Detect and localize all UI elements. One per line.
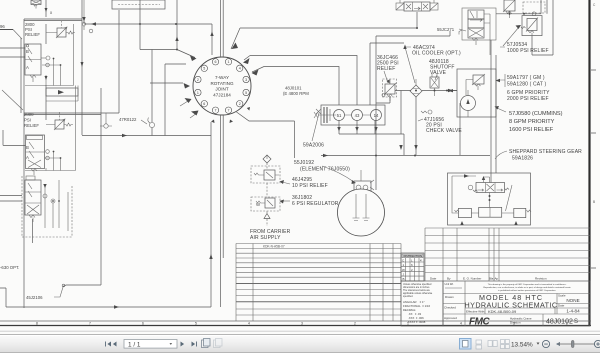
wire x415 x460 drops [416,97,460,155]
svg-text:5: 5 [195,322,197,326]
valve block V11 with B A ports [25,44,50,82]
wire y90.5 cooler row [395,90,457,92]
joint radial arrows [184,43,259,116]
wire y64 stub [165,63,186,65]
svg-text:48J0101: 48J0101 [285,86,302,91]
svg-text:S: S [574,319,578,325]
wire diagonal to port 5 [177,50,195,58]
label 46J4295 10 PSI RELIEF [280,177,328,189]
svg-text:2: 2 [197,78,199,82]
bus x376 vertical [375,36,377,190]
svg-text:1 / 1: 1 / 1 [128,341,141,348]
svg-text:59A2006: 59A2006 [303,143,324,149]
arrow into priority [449,89,454,92]
svg-text:51: 51 [337,113,342,118]
wire x165 drop [164,64,166,136]
svg-text:13.54%: 13.54% [511,342,533,349]
wire x140 elbow [140,0,177,50]
svg-text:4: 4 [239,67,241,71]
label 6 GPM PRIORITY [507,90,550,102]
svg-text:RELIEF: RELIEF [24,123,39,128]
svg-text:W: W [402,268,405,272]
box around mid cluster [25,86,76,171]
svg-text:7: 7 [215,109,217,113]
nav first-page button [105,342,116,347]
label 55JC271 [437,27,466,32]
svg-text:6: 6 [142,322,144,326]
arrow on y155.5 [323,154,328,157]
reservoir circle [338,189,385,236]
label 48J0101 engine [283,86,309,97]
svg-text:7: 7 [228,109,230,113]
svg-text:2800: 2800 [24,112,34,117]
svg-text:47R0122: 47R0122 [119,117,137,122]
arrows into joint below [211,120,233,124]
svg-text:Approved: Approved [444,316,457,320]
joint port circles [195,59,250,114]
label 36J1802 6 PSI REGULATOR [280,195,339,207]
pump outlet arrows [337,127,377,132]
wire y24 horizontal [84,23,212,25]
steering gear box [448,173,532,225]
wire y13.8 top right [496,0,553,55]
wire x101 vertical [100,88,102,285]
svg-text:specified.: specified. [403,295,413,298]
svg-text:SHEPPARD STEERING GEAR: SHEPPARD STEERING GEAR [509,149,582,155]
sheet right border [588,0,590,326]
air valve R3 dashed box [251,197,280,211]
wire pair y19.5 [24,19,82,21]
svg-text:E. O. Number: E. O. Number [463,277,481,281]
arrow on x176 [175,37,178,42]
valve 55JC271 stack [459,8,496,55]
relief valve mid-left [46,112,73,130]
box around lower cluster [22,176,72,237]
label 57J0534 1000 PSI RELIEF [500,25,549,54]
svg-text:3: 3 [301,322,303,326]
prev-view icon [202,339,211,348]
svg-text:B: B [403,277,405,281]
label 55J0192 ELEMENT [294,160,356,184]
wire x211 riser [210,122,212,307]
svg-text:RELIEF: RELIEF [25,32,40,37]
svg-text:5: 5 [245,91,247,95]
relief valve 57J0534a [503,0,516,18]
svg-text:OIL COOLER (OPT.): OIL COOLER (OPT.) [412,51,461,57]
layout icon continuous-facing [501,340,510,349]
svg-text:CHECK VALVE: CHECK VALVE [426,128,462,134]
svg-text:KDK-48-B00-09: KDK-48-B00-09 [488,309,517,314]
svg-text:ROTATING: ROTATING [210,81,233,86]
wire y135.5 to joint [82,135,211,137]
svg-text:59A1280 ( CAT ): 59A1280 ( CAT ) [507,82,546,88]
node symbol x84 [82,0,86,30]
page bottom edge [0,330,600,332]
svg-text:.XXXX ± .0008: .XXXX ± .0008 [407,320,426,324]
svg-text:Revision: Revision [535,277,547,281]
svg-text:55J0192: 55J0192 [294,160,314,166]
arrows down x401 x415 [399,145,417,150]
svg-text:Bla: Bla [489,277,494,281]
arrow left on y24 [91,22,96,25]
revision table [425,228,590,281]
wire x401 [400,91,402,135]
layout icon single (selected) [460,339,472,350]
valve block V12 [26,135,50,175]
svg-text:Unit Wt.: Unit Wt. [445,282,455,286]
svg-text:96: 96 [0,24,5,29]
relief valve 36JC466 symbol [382,79,397,101]
zoom in button [594,340,600,347]
arrow on y307 [114,305,119,308]
svg-text:2000 PSI RELIEF: 2000 PSI RELIEF [507,96,549,102]
tolerance note block [401,281,443,326]
label 48J0118 SHUTOFF VALVE [429,59,455,80]
svg-text:14: 14 [374,113,379,118]
svg-text:6: 6 [203,102,205,106]
wire from joint to right y121 [237,112,295,158]
svg-text:Checked: Checked [444,306,456,310]
label FROM CARRIER AIR SUPPLY [250,219,291,241]
zoom out button [542,340,549,347]
return line y155.5 [321,155,490,157]
label 47R0122 [100,117,147,128]
svg-text:Date: Date [558,304,565,308]
zoom slider [556,342,560,346]
arrow on x84 [82,17,85,22]
junction x177 [176,49,178,51]
steering bus double [491,40,496,183]
air supply triangle [264,214,270,219]
label 2800 PSI RELIEF (upper) [25,22,40,37]
svg-text:B: B [26,145,29,150]
arrow on x212 [210,32,213,37]
wire x82 [81,0,83,135]
top middle box [112,0,165,9]
valve block V13 lower-left [25,176,55,222]
pump outlet wires [339,121,404,156]
svg-text:6 PSI REGULATOR: 6 PSI REGULATOR [292,201,339,207]
label 36JC466 2500 PSI RELIEF [377,55,399,84]
effectivity table [236,244,401,322]
oil cooler diamond [410,79,422,97]
label SHEPPARD STEERING GEAR [495,149,582,162]
svg-text:8 GPM PRIORITY: 8 GPM PRIORITY [509,119,555,125]
svg-text:Division: Division [510,321,521,325]
dashed opt box top right [523,2,545,13]
svg-text:7: 7 [89,322,91,326]
svg-text:5: 5 [203,67,205,71]
zone ticks right [591,70,596,268]
svg-text:45J2106: 45J2106 [26,295,43,300]
arrow on y135.5 [122,134,127,137]
air regulator R2 dashed box [251,155,280,183]
svg-text:A: A [26,155,29,160]
title block [443,281,590,328]
nav next buttons [181,342,197,347]
wire y28 top long [231,12,417,49]
arrow up on x211 [209,254,212,259]
priority valve box [457,69,496,117]
diagonal stubs into left ports [180,101,197,118]
svg-text:1000 PSI RELIEF: 1000 PSI RELIEF [507,48,549,54]
next-view icon (disabled) [214,339,223,348]
svg-text:2: 2 [354,322,356,326]
svg-text:VALVE: VALVE [430,70,447,76]
sheet bottom border [0,320,591,322]
label 45J2106 [26,287,63,300]
svg-text:is prohibited without written: is prohibited without written permission… [498,289,556,292]
svg-text:Scale: Scale [558,294,566,298]
layout icon facing [488,341,497,347]
svg-text:57J0580 (CUMMINS): 57J0580 (CUMMINS) [509,111,563,117]
svg-text:B: B [593,200,595,204]
svg-text:JOINT: JOINT [215,87,228,92]
arrow on x82 [81,62,84,67]
svg-text:RELIEF: RELIEF [377,66,395,72]
svg-text:55JC271: 55JC271 [437,27,455,32]
svg-text:4: 4 [248,322,250,326]
relief valve 57J0534b [521,16,542,36]
wire jog to 45J2106 [63,285,101,287]
valve V10 top-left [31,0,53,15]
svg-text:DISTRIBUTION: DISTRIBUTION [404,254,423,258]
svg-text:43: 43 [355,113,360,118]
svg-text:2: 2 [239,102,241,106]
svg-text:Ap: Ap [495,277,499,281]
svg-text:Date: Date [430,277,437,281]
svg-text:(E 4800 RPM: (E 4800 RPM [283,91,309,96]
wire x46 mid [45,85,47,120]
svg-text:This drawing is the property o: This drawing is the property of FMC Corp… [488,283,567,286]
joint double drop line [221,0,224,57]
wire pair y113 [24,113,119,114]
svg-text:Reproduction, use or disclosur: Reproduction, use or disclosure, in whol… [483,286,571,289]
wire x176 vertical [176,0,178,50]
svg-text:1: 1 [197,91,199,95]
relief valve upper-left [46,21,75,39]
page number box [124,340,177,349]
svg-text:48J0102: 48J0102 [546,319,573,326]
label 57J0580 CUMMINS [495,106,563,133]
svg-text:8: 8 [36,322,38,326]
wire x119 vertical [118,10,120,113]
wire joint to pump box lower [252,67,339,106]
node leader -96 [0,24,22,39]
wire x212 down to joint [211,24,213,55]
wire feeds from left edge [0,38,33,243]
left stub box [0,288,6,307]
svg-text:7-WAY: 7-WAY [215,75,229,80]
svg-text:47J2184: 47J2184 [213,92,231,97]
svg-text:Drawn: Drawn [445,295,454,299]
gauge circle 47R0122 tap [149,122,154,127]
check valve 47J1656 [418,110,462,134]
svg-text:6: 6 [215,60,217,64]
svg-text:Effective With:: Effective With: [466,310,485,314]
svg-text:4: 4 [460,322,462,326]
svg-text:By: By [447,277,451,281]
svg-text:FMC: FMC [469,317,490,328]
wire y36 [376,31,450,36]
wire y83 stub to port 1 [150,82,183,84]
layout icon continuous [476,340,482,349]
bottom return wire y307 [6,306,211,308]
svg-text:PSI: PSI [24,118,31,123]
wire joint to pump box upper [244,56,357,106]
wire x152 drop to gauge [151,50,153,136]
wires into V13 from left edge [0,196,22,202]
label 59A2006 [303,109,324,149]
box around upper cluster [25,24,74,86]
dashed air line [266,163,268,213]
svg-text:AIR SUPPLY: AIR SUPPLY [250,235,281,241]
arrow on joint right wire [247,107,250,111]
check valve mid-left [46,86,78,102]
arrow on x46 [45,8,48,12]
shutoff valve symbol [430,73,439,96]
svg-text:3: 3 [245,78,247,82]
svg-text:B: B [26,49,29,54]
solenoid valve 55JC400 top center [396,0,438,11]
svg-text:1600 PSI RELIEF: 1600 PSI RELIEF [509,127,554,133]
wire x46 top [45,0,47,44]
svg-text:10 PSI RELIEF: 10 PSI RELIEF [292,183,328,189]
label 2800 PSI RELIEF (lower) [2,90,39,128]
pump group P1 P2 P3 [314,105,385,125]
7-way rotating joint [193,57,251,115]
label 59A1797 GM CAT [496,74,547,88]
wire y103 [376,96,390,103]
svg-text:NONE: NONE [566,298,579,303]
zone ticks bottom [36,322,568,326]
wire left bus x24 [23,19,25,308]
svg-text:A: A [26,65,29,70]
arrow on y90.5 [448,89,453,92]
junction dots y24 [139,23,141,25]
svg-text:-630 OPT.: -630 OPT. [0,265,19,270]
svg-text:1: 1 [228,60,230,64]
joint double line below [221,115,224,307]
svg-text:59A1826: 59A1826 [512,156,533,162]
svg-text:(ELEMENT 76J0550): (ELEMENT 76J0550) [300,167,350,173]
svg-text:1-4-84: 1-4-84 [566,309,580,314]
label 46AC974 OIL COOLER [403,45,461,84]
distribution table [401,253,424,281]
svg-text:59A1797 ( GM ): 59A1797 ( GM ) [507,75,545,81]
filter on reservoir [354,170,374,194]
wire x370 corner [370,43,404,105]
svg-text:KDK-N-A5B-07: KDK-N-A5B-07 [263,245,285,249]
